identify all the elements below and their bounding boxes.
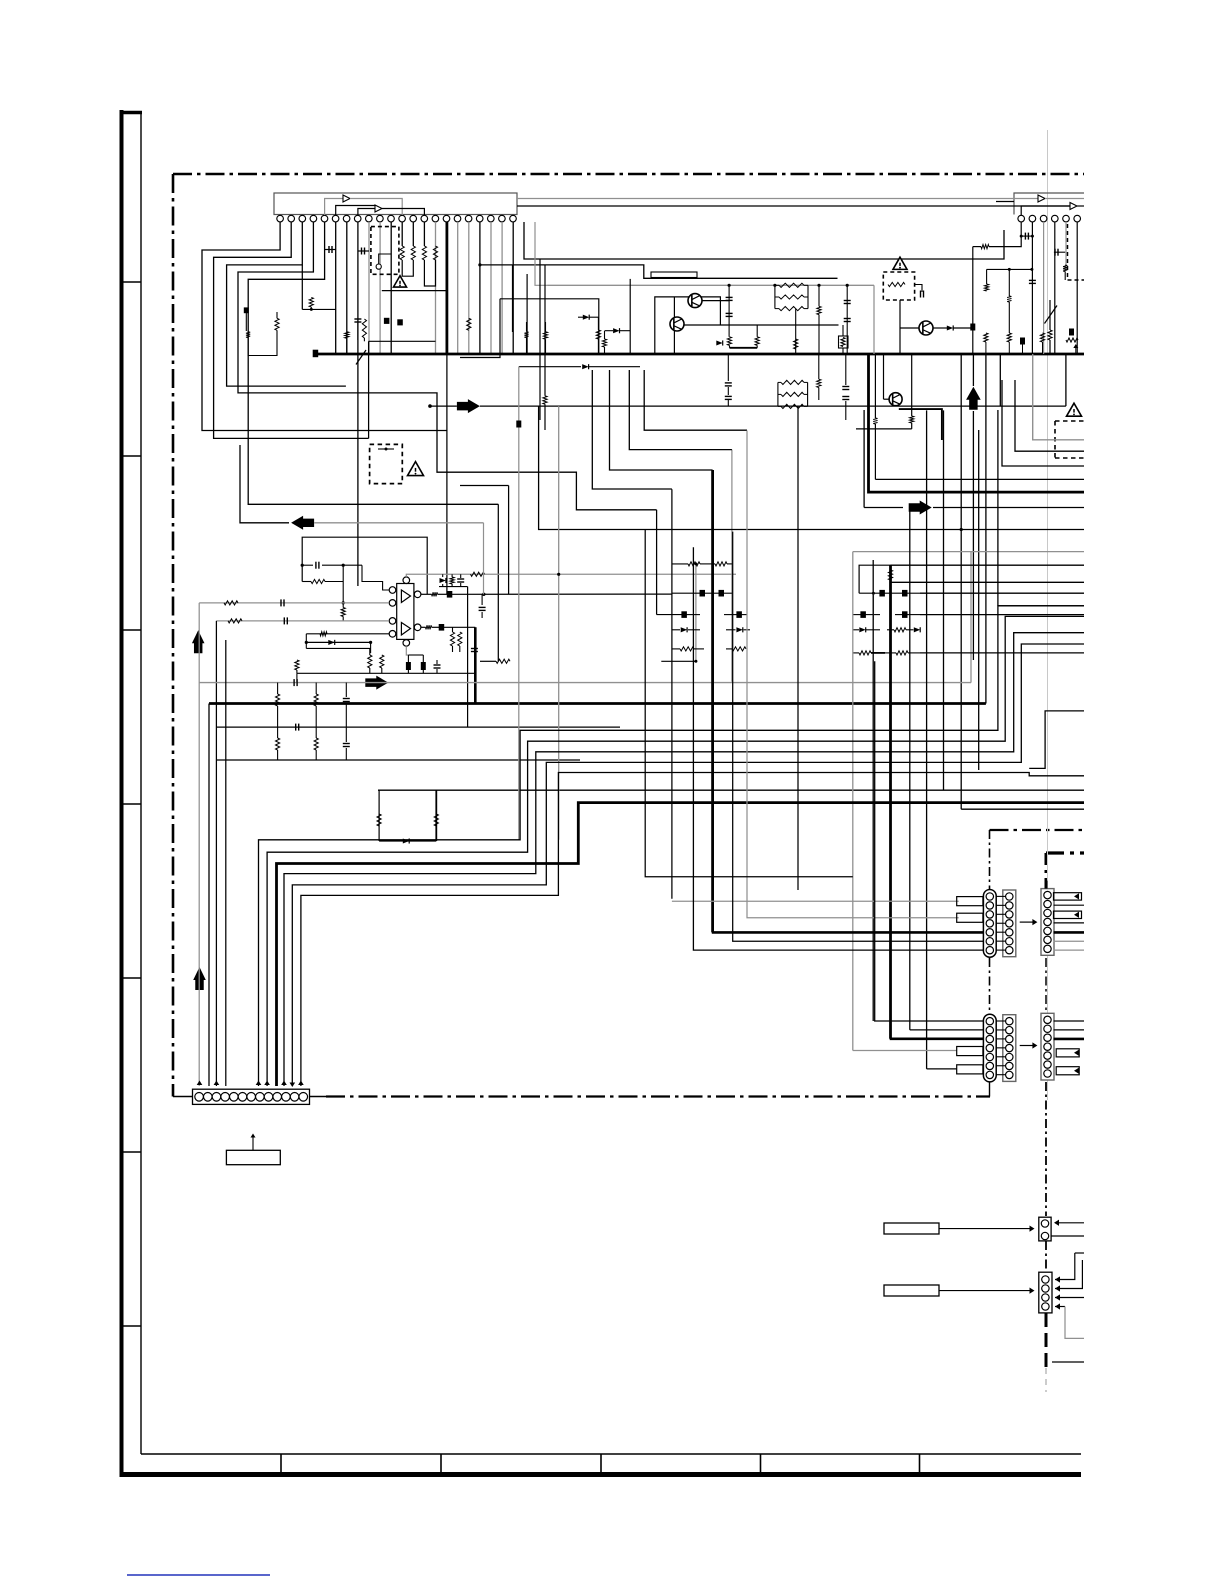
bottom border tick 4 (760, 1454, 762, 1472)
bead R65 (737, 612, 742, 618)
wire U1 pin13 drop (412, 222, 414, 246)
wire U1 pin2 left bundle (214, 222, 369, 438)
connector CN5 wire arrowheads (197, 1081, 203, 1086)
wire r53 (315, 727, 317, 738)
thick bus B (209, 702, 986, 705)
wire v545 upper (544, 265, 546, 374)
second PWB frame vertical bold segment (1045, 1241, 1047, 1272)
wire arrow A1 tail (430, 405, 457, 407)
wire U3 input2 gray (216, 620, 389, 622)
resistor RC5 (894, 628, 906, 632)
wire upper route 2 (535, 222, 547, 285)
warning triangle W4 (408, 462, 424, 476)
wire h 941 (733, 441, 735, 942)
bead R62 (700, 590, 705, 596)
resistor R87 (543, 332, 547, 340)
wire u2 pin drops (1031, 222, 1033, 354)
wire A7 sides (960, 354, 962, 809)
wire conn drop 225 (225, 640, 227, 1086)
capacitor C12 input2 (283, 617, 285, 624)
resistor R42 left (295, 660, 299, 670)
wire network N1 top (378, 789, 1084, 791)
resistor R32 input2 (228, 619, 242, 623)
wire ladder step (362, 565, 389, 590)
wire r52 (277, 727, 279, 738)
wire rp1 drop (795, 309, 797, 354)
IC U1 body (274, 193, 517, 215)
PWB frame top dash-dot (173, 173, 1084, 176)
wire gray bus vert (970, 552, 972, 683)
wire U3 feedback loop (302, 537, 427, 594)
resistor R35 outB (426, 625, 432, 629)
above-bus resistor RA4 (1066, 338, 1078, 342)
connector CN3 mate (7p box) (1003, 1015, 1016, 1082)
capacitor C16 (471, 648, 478, 650)
wire rc row 629.8 (853, 629, 859, 631)
page left border thin rule (140, 111, 142, 1454)
left border fold tick 3 (121, 629, 141, 631)
wire U1 pin18 drop (468, 222, 470, 354)
wire feed L-row1 (875, 661, 983, 1021)
resistor R30 ladder (311, 579, 325, 583)
second PWB frame bold corner dash-dot (1046, 851, 1084, 854)
IC U2 internal route 2 (1021, 206, 1070, 215)
connector CN6 (2p) (1039, 1217, 1051, 1241)
wire b10 (245, 280, 247, 308)
transistor Q2 (670, 317, 684, 331)
resistor R36 top rail (471, 572, 485, 576)
resistor box R72b (839, 336, 849, 348)
wire U1 pin21 drop (501, 222, 503, 354)
wire cap2 link (358, 250, 369, 252)
second PWB frame vertical lower dash-dot (1045, 1082, 1047, 1216)
wire rc row 593.2 (859, 592, 880, 594)
wire right exit 451 (1015, 380, 1084, 451)
resistor RC0 (888, 570, 892, 580)
diode D5 (403, 838, 409, 843)
page left border thick rule (120, 110, 124, 1477)
resistor R10 on pin drop (400, 246, 404, 260)
capacitor C17 (479, 606, 486, 608)
wire U3 outB2 (432, 626, 440, 628)
signal arrow right A4 (365, 676, 388, 690)
IC U2 internal route 1b (gray) (1045, 198, 1084, 200)
warning triangle W3 (1067, 403, 1082, 416)
thick vertical D (711, 470, 714, 932)
op-amp U3 right pin A (414, 591, 421, 598)
wire upper route to right IC (524, 222, 1004, 259)
thick connector bundle wire (277, 803, 1085, 1086)
dashed box L1 (883, 272, 914, 300)
resistor RC7 (896, 651, 908, 655)
label box CN5 (226, 1150, 280, 1164)
left border fold tick 7 (121, 1325, 141, 1327)
wire T vert 645 (644, 528, 646, 560)
wire q-loop top (655, 297, 721, 354)
IC U2 buffer amp A (1038, 195, 1045, 202)
connector CN1 mate (7p box) (1003, 890, 1016, 957)
wire right exit 632 (1014, 632, 1084, 634)
connector CN2 (7p box) (1041, 889, 1054, 956)
connector CN4 (7p box) (1041, 1013, 1054, 1080)
resistor R84 (362, 319, 366, 338)
resistor network RP2 rails (777, 382, 779, 406)
wire cluster out left (480, 660, 496, 662)
capacitor C50 (354, 318, 361, 320)
wire pin3 tail (301, 265, 303, 310)
resistor R21 (596, 330, 600, 339)
capacitor C40 (725, 382, 732, 384)
wire N1 right vert (435, 790, 437, 841)
bead RC2 (903, 590, 908, 596)
thick CN1 right row5 (1054, 931, 1085, 934)
wire CN7 row2 feed (1055, 1260, 1082, 1289)
footer blue hyperlink rule (127, 1574, 270, 1576)
resistor R86 (524, 332, 528, 338)
wire 446.9 below bus (446, 354, 448, 594)
op-amp U3 left pin 1 (389, 587, 396, 594)
resistor R33 (320, 632, 327, 636)
above-bus bead BA1 (1021, 338, 1025, 344)
resistor R85 (467, 318, 471, 330)
wire rc row 614.6 (853, 614, 861, 616)
wire L1 out (915, 285, 922, 293)
wire feed row6 (733, 532, 983, 942)
transistor Q3 (919, 321, 933, 335)
IC U2 pin circles (1018, 215, 1025, 222)
resistor R73 (543, 396, 547, 404)
wire c33 (345, 727, 347, 742)
wire 368 rise (368, 341, 370, 438)
wire r37 ties (342, 603, 344, 608)
wire right exit 614 (920, 614, 1084, 616)
wire U1 pin19 drop (479, 222, 481, 354)
resistor RP1a (775, 284, 779, 286)
wire CN7 row3 feed (1055, 1297, 1084, 1299)
resistor R71 (817, 379, 821, 387)
capacitor C43 (842, 396, 849, 398)
thick feed L-row3 (890, 1038, 983, 1041)
left border fold tick 2 (121, 455, 141, 457)
bead RC4 (903, 612, 908, 618)
wire U3 bottom pin net (406, 646, 408, 655)
switch diagonal S1 (1045, 306, 1058, 324)
wire vertical 926 (926, 410, 928, 1069)
wire T vert 645 (645, 530, 853, 877)
wire c34 (728, 285, 730, 337)
small arrow to bus (1073, 344, 1078, 348)
diode D8 gray (582, 364, 588, 369)
connector CN7 (4p) (1039, 1272, 1052, 1313)
bead B10 (244, 308, 248, 313)
wire right ic misc (1049, 300, 1051, 330)
wire r74b (874, 424, 876, 479)
wire conn drop 208 (208, 704, 210, 1087)
wire row 614.6 (657, 614, 682, 616)
op-amp U3 amp A (401, 590, 410, 603)
left border fold tick 1 (121, 281, 141, 283)
resistor R25 (1048, 330, 1052, 340)
wire U1 pin22 drop (512, 222, 514, 354)
second PWB frame vertical bold segment 2 (1045, 1313, 1048, 1368)
wire h 428.9 (856, 428, 912, 430)
wire feed row1 gray (672, 900, 959, 902)
above-bus resistor RA3 (1040, 333, 1044, 342)
wire bundle vert 225 (225, 621, 227, 1086)
resistor RP1c (775, 308, 779, 310)
gray rc vert 873 (872, 593, 874, 620)
wire q3 right (933, 327, 947, 329)
warning triangle W2 (893, 257, 907, 269)
wire r80 u-link (248, 330, 277, 355)
resistor R28 (1007, 296, 1011, 302)
wire c8 (1021, 235, 1032, 237)
wire T vert 656 (656, 510, 658, 615)
capacitor C41 (725, 395, 732, 397)
resistor RC6 (859, 651, 871, 655)
wire U1 pin4 left bundle (248, 222, 498, 504)
bottom border tick 3 (600, 1454, 602, 1472)
wire q3 left (900, 327, 919, 329)
wire vert 875 (874, 354, 876, 418)
IC U1 buffer amp A (343, 195, 350, 202)
gray bus mid (199, 682, 971, 684)
signal arrow right A1 (457, 399, 480, 413)
resistor R23 (817, 306, 821, 314)
wire rail 290.6 (382, 290, 447, 292)
wire loop bottom (460, 299, 500, 358)
wire u2 pin1 route (989, 222, 1021, 247)
wire T vert 798 (797, 406, 799, 890)
wire arrow A3 line (314, 522, 483, 524)
wire U1 pin10 drop (379, 222, 381, 354)
gray vertical 873 (872, 560, 874, 1021)
resistor RP1b (775, 296, 779, 298)
gray CN1 right row7 (1054, 949, 1085, 951)
resistor R83 (345, 332, 349, 339)
diode D7 (736, 627, 742, 632)
op-amp U3 top pin (403, 577, 410, 584)
slash mark NC (356, 350, 366, 365)
wire right exit 592 (920, 592, 1084, 594)
wire u2 pin1 route b (973, 246, 981, 248)
PWB frame right vertical below connectors (989, 1082, 991, 1097)
wire midtop 1 (512, 265, 514, 332)
resistor R60 (688, 562, 700, 566)
transistor Q4 (889, 393, 902, 406)
resistor R52 (276, 738, 280, 750)
wire feed row7 (693, 547, 983, 950)
IC U1 internal route 1b (gray) (350, 199, 402, 216)
connector CN1 housing (7p stadium) (983, 890, 996, 958)
wires CN1 row ties (996, 895, 1006, 897)
above-bus resistor RA2 (1007, 333, 1011, 342)
transistor Q1 (688, 294, 702, 308)
wire CN7 side vert (1075, 1289, 1084, 1323)
resistor R67 (732, 647, 746, 651)
wire r73 (544, 374, 546, 396)
resistor Rq2 (755, 337, 759, 346)
IC U1 internal route 2b (382, 209, 424, 216)
wire T vert 656 (656, 512, 658, 940)
scan fold crease line (1047, 130, 1049, 1100)
PWB frame corner dash-dot to edge (990, 829, 1085, 831)
dashed box J2 u2 (1068, 224, 1085, 280)
signal arrow left A3 (291, 516, 314, 530)
resistor R39b (458, 632, 462, 646)
resistor R34 outA (432, 592, 438, 596)
wire A7 stem (972, 354, 974, 386)
wire c4243 (845, 354, 847, 385)
capacitor C3 (726, 296, 733, 298)
resistor R53 (314, 738, 318, 750)
wire N1 bottom (379, 840, 436, 842)
capacitor C2 link (361, 248, 363, 255)
wire U1 pin3 left bundle (227, 222, 346, 386)
wire right ic misc2 (1049, 340, 1051, 354)
diode D1 (583, 315, 589, 320)
bold dashdot above CN2 (1045, 881, 1048, 889)
jumper J1 wire (379, 254, 392, 264)
wire r23 (818, 285, 820, 306)
diode D6 (681, 627, 687, 632)
wire c9 (1054, 251, 1065, 253)
capacitor C33 (343, 743, 350, 745)
resistor R75 (910, 416, 914, 423)
bead FB2 (439, 625, 444, 631)
wire u2 h269 (987, 268, 1032, 270)
wire c32 (345, 683, 347, 697)
wire staircase e1 (644, 370, 747, 430)
signal arrow right A2 (909, 501, 932, 515)
diode D4 (328, 640, 334, 645)
resistor RP2a (778, 381, 781, 383)
wire arrow A1 line (480, 405, 1066, 407)
stub CN4 right row5 (1056, 1049, 1079, 1057)
jumper J1 circle (376, 264, 381, 269)
gray right exit 552 (853, 551, 1084, 553)
wire U1 pin4 left bundle (238, 222, 657, 510)
wire CN1 right row1 stub (1054, 893, 1082, 900)
capacitor hang C15 (457, 578, 464, 580)
capacitor C1 on pin5-6 link (328, 246, 330, 253)
wire v540 (539, 259, 541, 420)
bottom border tick 1 (280, 1454, 282, 1472)
wire right exit 582 (891, 581, 1085, 583)
connector CN5 pin circles (195, 1093, 204, 1102)
wire U1 pin7 drop (346, 222, 348, 354)
wire connector bundle 3 (284, 633, 1084, 1086)
wire U3 loop row2 (306, 641, 370, 643)
thick vertical F (889, 565, 892, 1039)
wire U1 pin9 drop (368, 222, 370, 354)
IC U1 internal route 2 (336, 206, 375, 216)
wire feed row2 gray (747, 431, 959, 918)
thick bus vertical from U1 pin16 (445, 222, 448, 354)
PWB frame bottom stub to connector (173, 1096, 193, 1098)
bead FB3 (406, 663, 410, 670)
wire CN1 right row2 (1054, 904, 1085, 906)
dashed box jumper J1 (371, 227, 399, 275)
wire c4041 (727, 387, 729, 395)
wire N1 left vert (378, 790, 380, 841)
left loop rect (500, 299, 599, 354)
wire row 629.8 (672, 629, 680, 631)
wire rc row 652.9 (853, 652, 859, 654)
resistor R12 on pin drop (422, 246, 426, 260)
above-bus resistor RA1 (984, 333, 988, 342)
wire r50 (277, 683, 279, 694)
wire CN6 right row2 (1051, 1235, 1084, 1237)
diode DC2 (914, 627, 920, 632)
gray feed L-row4 (853, 1050, 957, 1052)
wire CN1 right row4 (1054, 922, 1085, 924)
IC U2 internal route 1 (gray) (517, 198, 1038, 200)
wire connector bundle 2 (267, 616, 1084, 1086)
wire stub 485 (460, 485, 509, 487)
bead R64 (682, 612, 687, 618)
wire r71 (818, 354, 820, 379)
wire CN4 right row1 (1054, 1020, 1085, 1022)
bead B3 (971, 324, 975, 330)
jumper J3 glyph (378, 448, 394, 450)
IC U1 buffer amp B (375, 205, 382, 212)
thick vertical U3 out (474, 627, 477, 703)
bottom border tick 5 (919, 1454, 921, 1472)
IC U1 internal route 3 (358, 209, 375, 216)
wire q4 bottom thick (899, 409, 942, 440)
wire arrow A3 left (240, 445, 289, 523)
wire U3 loop left (305, 634, 307, 649)
wire r70 (727, 354, 729, 381)
wire ladder rung1 (302, 564, 313, 566)
second PWB frame vertical mid dash-dot (1045, 958, 1047, 1014)
bead FB1 (447, 592, 452, 598)
gray cluster2 vert b (695, 564, 697, 661)
wire ladder vert 343 (342, 565, 344, 603)
dashed box J3 (370, 444, 403, 483)
wire U3 input1 drop (198, 603, 200, 1086)
signal arrow up A5 (192, 630, 205, 653)
stub box CN3 in A (957, 1047, 983, 1056)
wire T vert 630 (630, 448, 959, 918)
wire d8 (519, 366, 581, 368)
wire bundle extra 1 (226, 830, 248, 1086)
wire pin5 drop to out-row (497, 504, 499, 661)
wire inter-IC black (517, 205, 1070, 207)
left border fold tick 5 (121, 977, 141, 979)
wire CN4 right row2 (1054, 1029, 1085, 1031)
wire U3 top rail gray (406, 574, 736, 577)
IC U1 pin circles (277, 215, 284, 222)
resistor network RP1 rails (774, 285, 776, 308)
wire below U3 rail (297, 672, 475, 674)
left border fold tick 6 (121, 1151, 141, 1153)
capacitor C18 (434, 664, 441, 666)
wire rail below (217, 726, 620, 728)
resistor R54 (377, 814, 381, 826)
thick right exit 492 (869, 354, 1085, 492)
relay box K1 (651, 272, 697, 278)
resistor R66 (680, 647, 694, 651)
resistor R82 (309, 298, 313, 308)
wire q2 out row (684, 324, 839, 326)
resistor R50 (276, 694, 280, 706)
arrow CN3 to CN4 (1020, 1045, 1033, 1047)
wire U1 pin8 drop (357, 222, 359, 586)
resistor R11 on pin drop (411, 246, 415, 260)
wire U1 pin12 drop (401, 222, 403, 246)
